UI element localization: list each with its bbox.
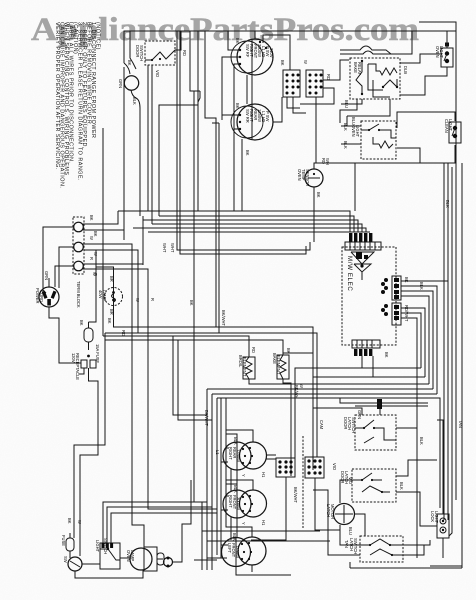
svg-text:FUSE: FUSE bbox=[61, 535, 66, 546]
far right bottom link bbox=[430, 565, 462, 567]
wire bottom left runs bbox=[202, 530, 320, 532]
wire clock relay left bbox=[341, 125, 361, 127]
wire SW2 right bbox=[273, 97, 282, 122]
svg-text:BK: BK bbox=[235, 103, 240, 109]
svg-text:BLK: BLK bbox=[232, 533, 237, 541]
wire ground stub bbox=[48, 278, 50, 287]
wires SW1 left bbox=[228, 31, 240, 50]
wire W feed bbox=[89, 250, 97, 322]
oven lamp cluster: fuse bbox=[61, 533, 74, 551]
feed wire 4 bbox=[152, 224, 362, 232]
svg-text:1250W: 1250W bbox=[235, 545, 240, 558]
top border wire bbox=[124, 31, 456, 63]
wire P3 down bbox=[251, 477, 286, 540]
svg-text:BK/WHT: BK/WHT bbox=[204, 410, 209, 426]
svg-text:RD: RD bbox=[251, 347, 256, 353]
trunk 194 long bbox=[194, 91, 202, 570]
svg-text:BK: BK bbox=[127, 60, 132, 66]
surface switch RR pair bbox=[223, 437, 267, 470]
svg-text:P SW: P SW bbox=[265, 111, 270, 122]
wire door stem bbox=[124, 63, 130, 74]
svg-text:BK: BK bbox=[384, 352, 389, 358]
surface switch LF pair bbox=[222, 533, 267, 567]
terminal block dashed box bbox=[73, 217, 84, 274]
clock relay dashed box bbox=[361, 121, 396, 159]
svg-text:BLK: BLK bbox=[343, 141, 348, 149]
wire bake bottom bbox=[283, 379, 291, 476]
svg-text:3000W: 3000W bbox=[236, 497, 241, 510]
svg-text:VIO: VIO bbox=[348, 477, 353, 484]
svg-text:ELEMENT: ELEMENT bbox=[276, 355, 281, 375]
wire fuse top bbox=[88, 322, 90, 328]
wire P1 drop1 bbox=[287, 97, 300, 108]
svg-text:BK: BK bbox=[67, 518, 72, 524]
svg-text:SENSOR: SENSOR bbox=[305, 169, 310, 186]
trunk x205 bbox=[205, 31, 216, 327]
wire P4 down bbox=[315, 478, 340, 530]
svg-text:VIO: VIO bbox=[155, 70, 160, 77]
wire sensor drop to bundle bbox=[354, 163, 356, 211]
latch motor bbox=[326, 504, 355, 536]
trunk x173 bbox=[173, 336, 207, 415]
svg-text:LIGHT: LIGHT bbox=[439, 46, 444, 59]
element bus 4 bbox=[105, 340, 283, 348]
wire lamp top feed bbox=[446, 31, 448, 48]
wire N pair bbox=[83, 244, 144, 547]
door switch inner contacts bbox=[145, 50, 175, 60]
svg-text:BLK: BLK bbox=[419, 282, 424, 290]
svg-text:W: W bbox=[92, 272, 97, 276]
svg-text:BLU: BLU bbox=[344, 100, 349, 108]
clock relay zigzag bbox=[379, 141, 393, 148]
broil element bbox=[238, 347, 256, 379]
wire receptacle bottom bbox=[89, 368, 99, 445]
right trunk 2 bbox=[447, 163, 449, 520]
wire latch top bbox=[313, 408, 362, 415]
wire door switch drop1 bbox=[147, 65, 149, 211]
wire cluster bottom bbox=[75, 570, 143, 578]
svg-text:SWITCH: SWITCH bbox=[353, 538, 358, 554]
trunk x190 bbox=[190, 31, 200, 91]
trunk x180 bbox=[180, 31, 306, 254]
right trunk far bbox=[461, 163, 463, 568]
svg-text:W: W bbox=[77, 520, 82, 524]
wire terminal N left bbox=[59, 247, 74, 288]
svg-text:ELEMENT: ELEMENT bbox=[242, 357, 247, 377]
terminal L1 bbox=[74, 222, 84, 232]
svg-text:SW RR: SW RR bbox=[245, 109, 250, 123]
svg-text:1250W: 1250W bbox=[236, 449, 241, 462]
relay inner links bbox=[368, 64, 383, 90]
svg-text:L1: L1 bbox=[215, 450, 220, 455]
wire latch relay top bbox=[437, 420, 443, 514]
latch switch contacts bbox=[355, 420, 374, 428]
wires SW1 to top bbox=[254, 31, 256, 39]
wire L2 pair bbox=[83, 216, 143, 264]
svg-text:GRN: GRN bbox=[118, 79, 123, 88]
svg-text:RELAY: RELAY bbox=[357, 62, 362, 75]
oven temp sensor bbox=[297, 169, 323, 187]
svg-text:H1: H1 bbox=[261, 472, 266, 478]
wire lamp out right bbox=[172, 480, 191, 562]
wire sensor right bend bbox=[440, 163, 444, 520]
svg-text:BK/WHT: BK/WHT bbox=[221, 310, 226, 326]
feed wire 6 bbox=[148, 231, 370, 233]
wires RF pair bbox=[226, 484, 237, 496]
svg-text:WH: WH bbox=[325, 158, 330, 165]
svg-text:RD: RD bbox=[182, 50, 187, 56]
switch feed B bbox=[107, 507, 212, 543]
wire receptacle left drop bbox=[79, 368, 84, 374]
control bottom connector bbox=[352, 340, 380, 356]
wire lamp bottom bbox=[400, 67, 447, 95]
svg-text:SWITCH: SWITCH bbox=[351, 417, 356, 433]
trunk x219 bbox=[218, 123, 220, 333]
svg-text:LIGHT: LIGHT bbox=[448, 119, 453, 132]
svg-text:BLU: BLU bbox=[348, 527, 353, 535]
terminal N bbox=[74, 242, 84, 252]
wires LF pair bbox=[221, 434, 228, 545]
svg-text:BK: BK bbox=[235, 38, 240, 44]
svg-text:BK: BK bbox=[245, 150, 250, 156]
svg-text:BLK: BLK bbox=[419, 437, 424, 445]
bake relay contact left bbox=[356, 61, 362, 94]
svg-text:SWITCH: SWITCH bbox=[139, 45, 144, 61]
assembly dashed edge bbox=[302, 436, 304, 528]
control connector pads bbox=[349, 233, 372, 242]
relay hump wires bbox=[340, 51, 386, 54]
wire P1 drop2 bbox=[293, 97, 306, 113]
latch relay box bbox=[430, 511, 449, 538]
surface switch RF pair bbox=[223, 485, 267, 518]
svg-text:BK: BK bbox=[316, 192, 321, 198]
feed wire 1 bbox=[118, 211, 350, 232]
svg-text:BK: BK bbox=[404, 277, 409, 283]
element bus 2 bbox=[105, 333, 317, 457]
svg-text:WHT: WHT bbox=[162, 243, 167, 253]
svg-text:MOTOR: MOTOR bbox=[330, 504, 335, 519]
wire latch box right bbox=[396, 428, 417, 558]
svg-text:BK/WHT: BK/WHT bbox=[293, 487, 298, 503]
svg-text:W: W bbox=[135, 298, 140, 302]
trunk x178 bbox=[178, 340, 212, 420]
receptacle 120v bbox=[71, 353, 96, 380]
feed wire 2 bbox=[159, 216, 354, 232]
bake relay dashed box bbox=[350, 58, 400, 99]
svg-text:240V: 240V bbox=[269, 48, 274, 58]
svg-text:CORD: CORD bbox=[39, 290, 44, 302]
latch contacts bbox=[352, 473, 372, 480]
trunk 202 bbox=[198, 91, 200, 211]
surface unit switch SW2 (right rear) bbox=[231, 103, 273, 140]
svg-text:LAMP: LAMP bbox=[130, 550, 135, 561]
switch feed A bbox=[103, 502, 207, 543]
svg-text:BLK: BLK bbox=[343, 123, 348, 131]
svg-text:VIO: VIO bbox=[332, 463, 337, 470]
wire P2 bottom to sensor bbox=[315, 97, 317, 163]
wire bake top bbox=[282, 348, 284, 355]
svg-text:BK: BK bbox=[189, 300, 194, 306]
wire bus left drop1 bbox=[74, 333, 105, 538]
wire pair1 to pair2 bbox=[230, 468, 232, 492]
wire P2 to relay bbox=[323, 60, 349, 80]
indicator L2 bbox=[444, 119, 461, 143]
bottom latch contacts bbox=[360, 539, 403, 545]
svg-text:BLU: BLU bbox=[351, 117, 356, 125]
wires SW2 left bbox=[222, 114, 240, 116]
svg-text:BLK: BLK bbox=[132, 97, 137, 105]
connector P3 bbox=[276, 458, 295, 477]
power cord bbox=[35, 271, 59, 307]
svg-text:LIGHT: LIGHT bbox=[355, 125, 360, 138]
svg-text:SW: SW bbox=[63, 556, 68, 563]
svg-text:RD: RD bbox=[326, 74, 331, 80]
svg-text:GRN: GRN bbox=[357, 410, 362, 419]
svg-text:CAM: CAM bbox=[319, 420, 324, 430]
trunk 221 226 top bbox=[207, 398, 221, 558]
wire door switch drop2 bbox=[151, 65, 153, 224]
wire broil top bbox=[248, 345, 250, 357]
svg-text:LIGHT: LIGHT bbox=[95, 540, 100, 553]
wire door bottom S bbox=[131, 90, 140, 216]
terminal L2 bbox=[74, 261, 84, 271]
staircase left 2 bbox=[80, 445, 98, 556]
connector P1 bbox=[283, 70, 300, 97]
lamp switch box bbox=[95, 538, 120, 569]
wire terminal L2 left bbox=[55, 266, 74, 287]
svg-text:GRN: GRN bbox=[44, 271, 49, 280]
wire door top right bbox=[130, 31, 136, 69]
element bus 3 bbox=[103, 336, 249, 345]
control transformer bbox=[351, 252, 374, 280]
wire circle2 bottom drop bbox=[241, 139, 243, 211]
latch rail top bbox=[355, 402, 428, 404]
door switch dashed box bbox=[145, 41, 175, 65]
relay contact right bbox=[383, 79, 397, 87]
wire door switch right bbox=[175, 31, 181, 50]
wire power cord bottom bbox=[49, 307, 81, 363]
trunk x177 bbox=[177, 31, 310, 250]
wire relay2 to sensor row bbox=[397, 148, 420, 163]
door lock motor DL bbox=[124, 76, 138, 90]
feed wire 5 bbox=[133, 228, 366, 232]
wire bottom latch right bbox=[403, 540, 430, 545]
wire relay bottom exits bbox=[341, 99, 362, 104]
switch top pads bbox=[102, 543, 105, 548]
wire pair3 bottom bbox=[236, 566, 291, 575]
fan wires control to right trunk bbox=[401, 280, 448, 282]
latch switch dashed box bbox=[355, 415, 396, 450]
switch feed C bbox=[111, 513, 217, 543]
wire L2 top bbox=[397, 112, 455, 128]
staircase left 6 bbox=[142, 216, 144, 265]
fuse cartridge bbox=[79, 320, 100, 363]
svg-text:RECEPTACLE: RECEPTACLE bbox=[75, 353, 80, 380]
control pin column 1 bbox=[381, 276, 401, 300]
svg-text:RD: RD bbox=[121, 330, 126, 336]
lamp capsule bbox=[157, 553, 164, 565]
oven lamp cluster: switch circle bbox=[63, 556, 82, 571]
svg-text:TAN: TAN bbox=[458, 420, 463, 428]
connector P2 bbox=[306, 70, 323, 97]
svg-text:BK: BK bbox=[107, 318, 112, 324]
top right corner wire bbox=[419, 22, 456, 152]
svg-text:TERM BLOCK: TERM BLOCK bbox=[76, 281, 81, 308]
bake element bbox=[272, 348, 291, 379]
wire pair1-pair2 link2 bbox=[251, 75, 253, 105]
oven door latch dashed box bbox=[352, 469, 396, 502]
svg-text:Y: Y bbox=[241, 474, 246, 477]
wires RR pair bbox=[226, 434, 237, 448]
svg-text:Y: Y bbox=[241, 522, 246, 525]
wire L2 bottom bbox=[440, 145, 455, 163]
svg-text:BLK: BLK bbox=[445, 200, 450, 208]
wire L1 pair bbox=[83, 211, 118, 224]
svg-text:BK: BK bbox=[89, 215, 94, 221]
wire relay top to right bbox=[386, 31, 412, 54]
control connector row bbox=[345, 242, 381, 250]
bottom most wire bbox=[350, 567, 462, 569]
wire latch2 elbow1 bbox=[396, 460, 437, 476]
svg-text:BK: BK bbox=[280, 60, 285, 66]
svg-text:LIGHT: LIGHT bbox=[434, 511, 439, 524]
wire sensor bottom bbox=[313, 187, 315, 242]
svg-text:BK: BK bbox=[79, 320, 84, 326]
wire fuse to switch bbox=[69, 551, 71, 558]
svg-text:BLK: BLK bbox=[399, 482, 404, 490]
svg-text:W: W bbox=[303, 60, 308, 64]
wire oven light bottom bbox=[113, 305, 115, 327]
svg-text:SW RF: SW RF bbox=[245, 44, 250, 58]
wire motor right bbox=[354, 514, 365, 536]
trunk x198 bbox=[159, 31, 198, 216]
relay coil zigzag bbox=[380, 68, 397, 75]
wire relay bottom bus bbox=[340, 99, 357, 123]
control pin column 2 bbox=[381, 303, 401, 325]
lamp small circle bbox=[164, 558, 173, 567]
svg-text:W: W bbox=[299, 384, 304, 388]
wire pair2 to pair3 bbox=[230, 516, 232, 540]
right side bus returns bbox=[361, 356, 363, 368]
electronic control dashed box bbox=[342, 247, 396, 345]
svg-text:M/W ELEC: M/W ELEC bbox=[346, 256, 353, 291]
svg-text:TAN: TAN bbox=[344, 540, 349, 548]
oven lamp big bbox=[126, 547, 157, 571]
wire relay right to lamp bbox=[400, 54, 440, 63]
wire broil bottom bbox=[249, 379, 429, 384]
wire oven light top bbox=[96, 267, 114, 288]
wire pair1-pair2 link1 bbox=[246, 75, 248, 104]
surface unit switch SW1 (right front) bbox=[231, 38, 274, 75]
feed wire 3 bbox=[143, 220, 358, 232]
wire latch2 left bbox=[340, 480, 352, 503]
svg-text:DLB: DLB bbox=[403, 66, 408, 74]
wire bottom latch left bbox=[340, 525, 360, 545]
svg-text:VERIFY PROPER OPERATION AFTER: VERIFY PROPER OPERATION AFTER SERVICING. bbox=[54, 22, 60, 170]
right trunk 4 bbox=[455, 152, 457, 500]
connector P4 bbox=[305, 457, 324, 478]
svg-text:WHT: WHT bbox=[170, 243, 175, 253]
svg-text:R: R bbox=[89, 257, 94, 260]
left long trunk pair down bbox=[123, 67, 125, 240]
wire sensor top bbox=[314, 163, 440, 169]
right trunk 3 bbox=[449, 167, 452, 536]
wire latch2 elbow2 bbox=[396, 492, 437, 526]
element bus 1 bbox=[113, 327, 313, 470]
wires cluster links bbox=[82, 563, 100, 565]
svg-text:W: W bbox=[89, 236, 94, 240]
wire terminal L1 left bbox=[43, 227, 74, 293]
oven light 40w dashed circle bbox=[98, 276, 123, 315]
oven lamp indicator L1 bbox=[435, 43, 453, 68]
bottom latch dashed box bbox=[360, 536, 403, 562]
svg-text:H1: H1 bbox=[261, 520, 266, 526]
svg-text:R: R bbox=[150, 298, 155, 301]
